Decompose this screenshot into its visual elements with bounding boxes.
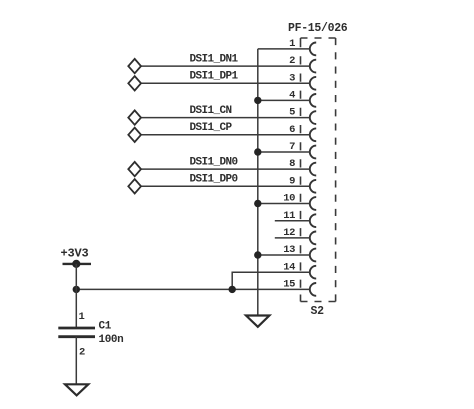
ground symbol below bus [246,316,269,327]
svg-text:100n: 100n [99,334,124,346]
junction rail / pin 14 branch [229,286,236,293]
diamond terminal DSI1_DN0 [128,162,141,176]
diamond terminal DSI1_DP1 [128,76,141,90]
wire: DSI1_DN0 to pin 8 [141,168,310,170]
capacitor C1 [58,327,95,330]
wire: pin 4 from bus [258,99,310,101]
junction on bus at pin 13 [254,251,261,258]
pin 11 contact [310,214,316,227]
pin 7 contact [310,146,316,159]
diamond terminal DSI1_DN1 [128,59,141,73]
connector S2 dashed outline [301,38,336,302]
pin 6 contact [310,128,316,141]
wire: pin 10 from bus [258,203,310,205]
wire: ground bus vertical [257,49,259,316]
pin 12 contact [310,232,316,245]
wire: pin 13 from bus [258,254,310,256]
svg-text:PF-15/026: PF-15/026 [288,22,348,35]
svg-text:DSI1_DN0: DSI1_DN0 [190,157,238,169]
pin 1 contact [310,43,316,56]
svg-text:DSI1_DN1: DSI1_DN1 [190,54,239,66]
wire: C1 to ground [75,337,77,385]
diamond terminal DSI1_DP0 [128,179,141,193]
wire: DSI1_CN to pin 5 [141,117,310,119]
pin 13 contact [310,249,316,262]
pin 9 contact [310,180,316,193]
svg-text:1: 1 [79,311,85,323]
pin 10 contact [310,197,316,210]
svg-text:S2: S2 [311,305,325,318]
wire: DSI1_CP to pin 6 [141,134,310,136]
wire: +3V3 down to rail and C1 [75,264,77,328]
ground symbol below C1 [65,384,88,395]
wire: DSI1_DP0 to pin 9 [141,185,310,187]
diamond terminal DSI1_CN [128,110,141,124]
wire: pin 1 to ground bus elbow [258,48,310,50]
wire: pin 11 stub [275,220,310,222]
pin 4 contact [310,94,316,107]
wire: DSI1_DP1 to pin 3 [141,82,310,84]
junction rail / +3V3 branch [73,286,80,293]
wire: DSI1_DN1 to pin 2 [141,65,310,67]
wire: pin 12 stub [275,237,310,239]
pin 8 contact [310,163,316,176]
junction on bus at pin 4 [254,97,261,104]
pin 2 contact [310,60,316,73]
junction on bus at pin 10 [254,200,261,207]
wire: pin 14 elbow [232,272,310,289]
pin 14 contact [310,266,316,279]
diamond terminal DSI1_CP [128,128,141,142]
svg-text:DSI1_CN: DSI1_CN [190,105,232,117]
pin 3 contact [310,77,316,90]
svg-text:2: 2 [79,347,85,359]
svg-text:DSI1_DP0: DSI1_DP0 [190,174,238,186]
wire: +3V3 rail to pin 15 [76,288,309,290]
junction on bus at pin 7 [254,148,261,155]
svg-text:+3V3: +3V3 [61,247,89,261]
svg-text:C1: C1 [99,321,112,333]
svg-text:DSI1_DP1: DSI1_DP1 [190,71,239,83]
pin 15 contact [310,283,316,296]
pin 5 contact [310,111,316,124]
wire: pin 7 from bus [258,151,310,153]
+3V3 power symbol [63,263,92,265]
svg-text:DSI1_CP: DSI1_CP [190,122,233,134]
